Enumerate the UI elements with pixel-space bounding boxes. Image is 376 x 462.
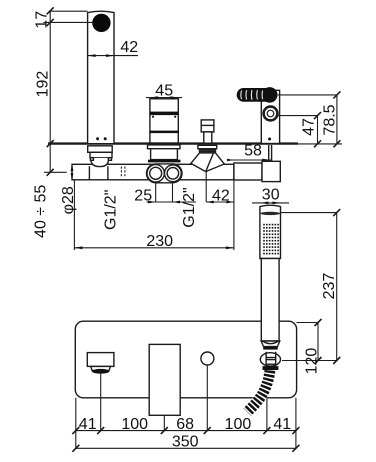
svg-text:192: 192 bbox=[35, 71, 52, 98]
svg-text:120: 120 bbox=[304, 348, 321, 375]
svg-text:17: 17 bbox=[34, 11, 51, 29]
svg-text:42: 42 bbox=[120, 39, 138, 56]
svg-text:230: 230 bbox=[146, 233, 173, 250]
svg-text:41: 41 bbox=[273, 416, 291, 433]
svg-text:58: 58 bbox=[244, 142, 262, 159]
svg-text:78.5: 78.5 bbox=[322, 104, 339, 135]
svg-text:42: 42 bbox=[212, 188, 230, 205]
svg-text:68: 68 bbox=[176, 416, 194, 433]
svg-text:237: 237 bbox=[321, 273, 338, 300]
svg-text:G1/2": G1/2" bbox=[181, 187, 198, 227]
svg-text:G1/2": G1/2" bbox=[103, 190, 120, 230]
svg-text:30: 30 bbox=[262, 187, 280, 204]
svg-text:100: 100 bbox=[225, 416, 252, 433]
svg-text:40 ÷ 55: 40 ÷ 55 bbox=[33, 185, 50, 238]
svg-text:100: 100 bbox=[121, 416, 148, 433]
svg-text:25: 25 bbox=[134, 188, 152, 205]
svg-text:45: 45 bbox=[155, 83, 173, 100]
svg-text:47: 47 bbox=[301, 118, 318, 136]
svg-text:41: 41 bbox=[79, 416, 97, 433]
svg-text:350: 350 bbox=[172, 434, 199, 451]
svg-text:φ28: φ28 bbox=[60, 186, 77, 214]
